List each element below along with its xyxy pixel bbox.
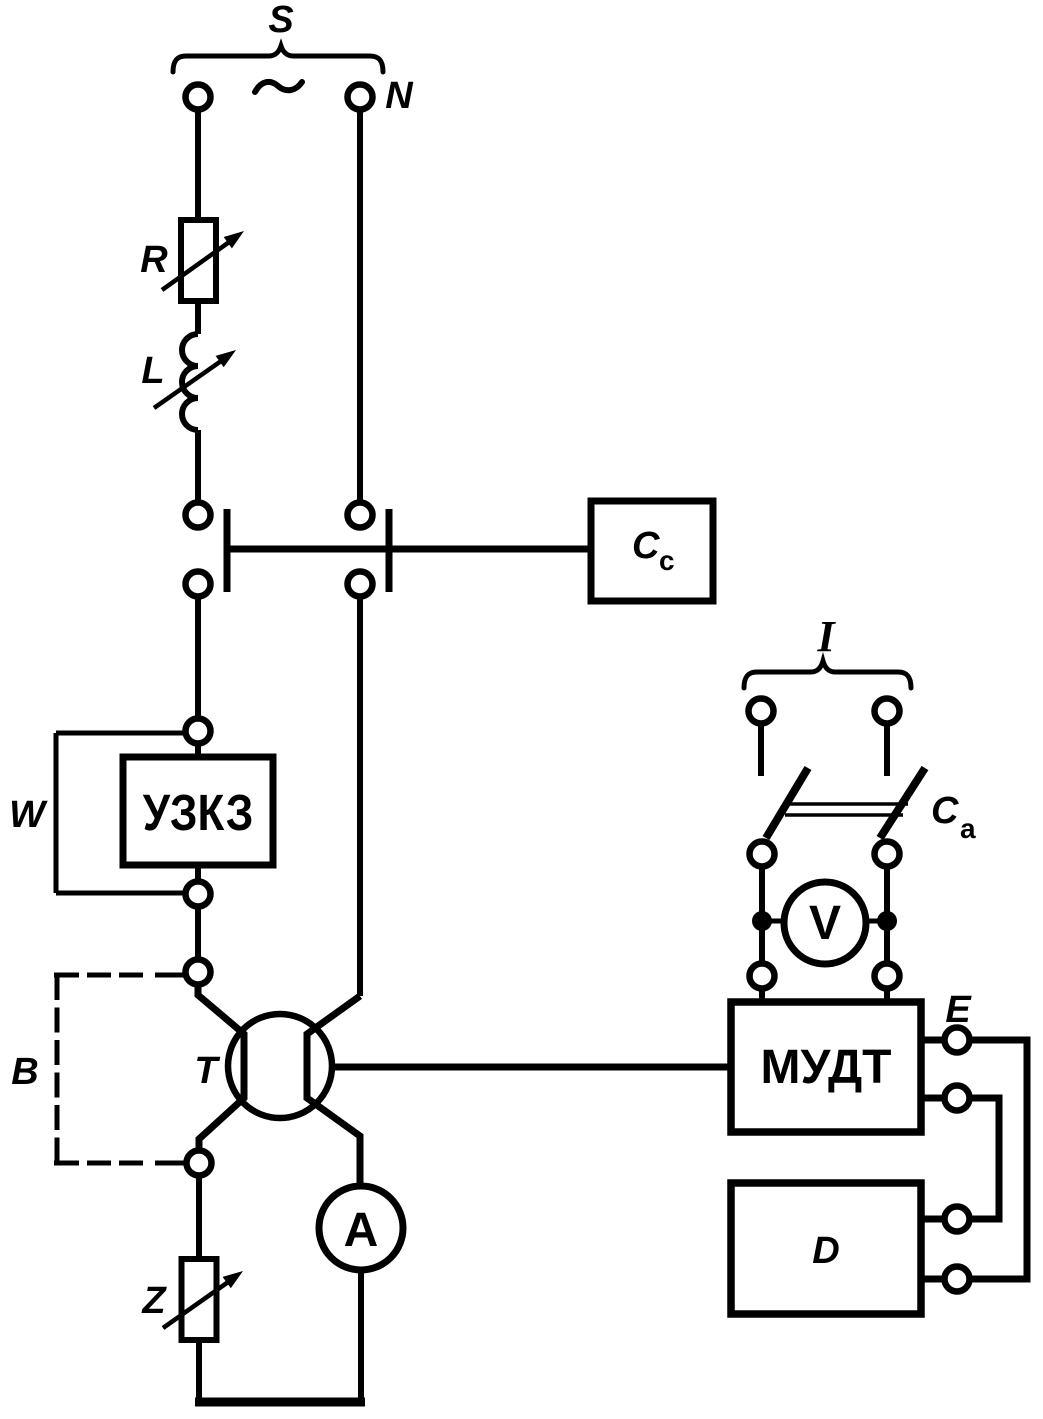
- svg-text:L: L: [141, 350, 164, 392]
- svg-text:c: c: [659, 545, 675, 576]
- svg-text:C: C: [931, 790, 959, 832]
- svg-text:a: a: [960, 813, 976, 844]
- svg-text:МУДТ: МУДТ: [761, 1041, 892, 1094]
- svg-text:T: T: [194, 1050, 220, 1092]
- svg-text:Z: Z: [141, 1280, 167, 1322]
- svg-text:I: I: [816, 612, 836, 661]
- svg-text:S: S: [268, 0, 293, 41]
- svg-text:E: E: [945, 989, 972, 1031]
- svg-text:УЗКЗ: УЗКЗ: [143, 785, 254, 842]
- svg-text:D: D: [812, 1230, 839, 1272]
- svg-text:N: N: [385, 75, 414, 117]
- svg-text:V: V: [809, 897, 841, 950]
- svg-text:A: A: [344, 1204, 379, 1257]
- svg-text:B: B: [11, 1051, 38, 1093]
- svg-text:W: W: [9, 794, 48, 836]
- svg-text:C: C: [632, 525, 660, 567]
- svg-text:R: R: [140, 239, 168, 281]
